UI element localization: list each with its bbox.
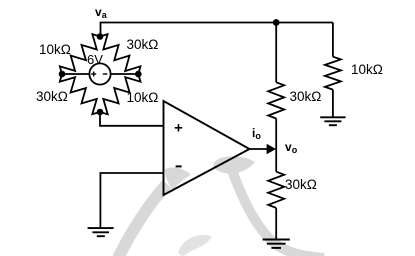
label 10kohm bridge bottom-right <box>127 90 159 105</box>
source plus mark <box>91 72 96 77</box>
wire minus input to ground <box>100 173 163 228</box>
label va <box>95 5 107 20</box>
label 30kohm middle upper <box>290 89 322 104</box>
source minus mark <box>103 73 108 75</box>
wire bridge horizontal right <box>111 73 139 75</box>
label 10kohm right <box>351 62 383 77</box>
label io <box>252 126 261 141</box>
ground G1 <box>320 117 345 125</box>
wire middle branch bottom lead <box>275 208 277 239</box>
wire middle branch to vo <box>275 119 277 172</box>
source V1 6V circle <box>89 63 110 84</box>
watermark swoosh leaf C <box>178 235 212 256</box>
resistor 10k bridge bottom-right <box>100 74 141 114</box>
resistor 30k middle lower <box>268 172 284 208</box>
label 30kohm middle lower <box>285 177 317 192</box>
label vo <box>285 140 297 155</box>
wire top: node a rail <box>101 23 333 37</box>
label 10kohm bridge top-left <box>39 42 71 57</box>
arrowhead io into node vo <box>267 144 276 155</box>
resistor 10k bridge top-left <box>60 34 100 74</box>
label 30kohm bridge bottom-left <box>36 89 68 104</box>
resistor 10k right <box>325 57 341 90</box>
watermark tail B <box>232 170 324 256</box>
wire op-amp output <box>250 148 269 150</box>
ground G2 <box>263 240 290 248</box>
bridge node top dot <box>97 33 104 40</box>
wire middle branch upper lead <box>275 23 277 83</box>
bridge node right dot <box>135 71 142 78</box>
junction node dot <box>273 19 280 26</box>
op-amp U1 triangle <box>164 101 250 195</box>
wire bottom node to op-amp + input <box>100 112 164 126</box>
watermark tail A <box>118 184 167 256</box>
bridge node bottom dot <box>97 109 104 116</box>
resistor 30k bridge top-right <box>100 34 141 74</box>
ground G3 <box>88 228 114 236</box>
wire right branch upper lead <box>332 23 334 57</box>
watermark swoosh leaf B <box>213 156 255 174</box>
wire right branch lower lead <box>332 90 334 117</box>
label 6V <box>87 52 103 67</box>
resistor 30k bridge bottom-left <box>60 74 100 114</box>
op-amp minus input mark <box>176 165 182 167</box>
label 30kohm bridge top-right <box>127 37 159 52</box>
resistor 30k middle upper <box>268 82 284 118</box>
watermark swoosh leaf A <box>165 167 191 190</box>
bridge node left dot <box>59 71 66 78</box>
wire bridge horizontal left <box>62 73 89 75</box>
op-amp plus input mark <box>175 124 182 131</box>
